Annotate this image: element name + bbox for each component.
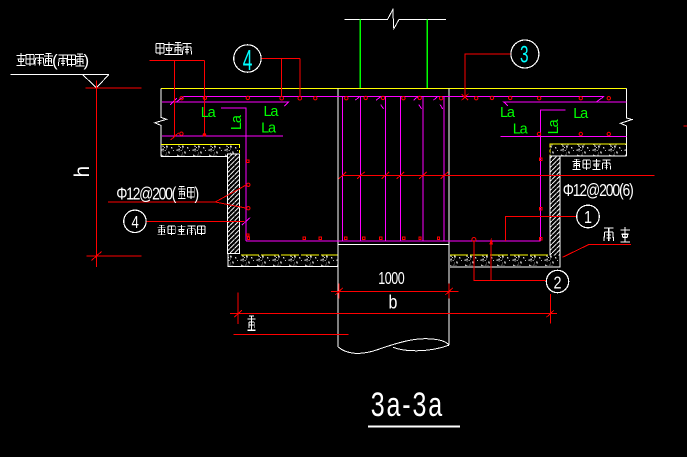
svg-text:(: ( <box>52 51 58 70</box>
right slab cushion left dash (yellow) <box>549 145 551 156</box>
cap stirrup vertical 6 <box>443 96 445 241</box>
callout circle 1 <box>577 205 600 228</box>
callout circle 4 bottom <box>124 210 146 232</box>
circle2 leader top arrow <box>489 238 493 245</box>
left slab edge with break <box>155 88 167 156</box>
dim 1000 line <box>331 290 459 292</box>
callout circle 2 <box>546 270 568 292</box>
cap bottom cushion right speckle <box>450 255 560 266</box>
pile top (white) <box>338 244 449 246</box>
dim b ext lines <box>238 292 550 324</box>
svg-text:La: La <box>264 104 280 120</box>
callout circle 3 <box>511 40 539 68</box>
zhuang label underline <box>233 333 348 335</box>
label phi12@200(6) <box>563 181 634 200</box>
h bottom tick <box>92 252 102 261</box>
dim 1000 ticks <box>335 288 453 295</box>
pile left edge <box>337 245 339 348</box>
dim b ticks <box>234 310 554 317</box>
right slab edge with break <box>621 88 633 156</box>
label dianceng fake glyphs <box>604 227 630 242</box>
label phi12@200(fengbi) <box>116 185 177 204</box>
svg-text:2: 2 <box>553 273 561 293</box>
left slab cushion bottom (white) <box>161 156 240 158</box>
svg-text:La: La <box>229 114 245 130</box>
jog B-A right <box>597 96 605 102</box>
slab bottom rebar right <box>501 135 627 137</box>
phi12 left label underline + fork <box>108 185 246 208</box>
ticks on x=174.6 <box>171 133 179 140</box>
circle1 leader <box>505 217 576 241</box>
dim b line <box>230 313 557 315</box>
circle2 leader <box>474 242 547 280</box>
column rebar left (green) <box>359 20 361 89</box>
cap stirrup vertical 4 <box>400 96 402 241</box>
wall line left of cap (white) <box>337 89 339 245</box>
h bottom red horizontal <box>87 255 142 257</box>
column rebar right (green) <box>426 20 428 89</box>
circle4 leader end rings <box>280 96 302 100</box>
slab top line (yellow) <box>161 87 626 89</box>
left slab cushion speckle <box>162 145 240 155</box>
dianceng leader right <box>563 245 631 258</box>
stirrup right leg with stub <box>541 110 566 241</box>
svg-text:La: La <box>500 105 516 121</box>
level red cross horizontal <box>86 87 142 89</box>
svg-text:La: La <box>201 105 217 121</box>
section rings on bottom slab rebar <box>180 132 611 136</box>
circle2 leader top ring <box>472 238 476 242</box>
svg-text:h: h <box>71 166 94 178</box>
label dibangangjin fake glyphs <box>156 42 192 55</box>
circle4 top leader <box>261 59 300 97</box>
right slab cushion bottom (white) <box>550 155 627 157</box>
cap stirrup vertical 5 <box>422 96 424 241</box>
section squares on stirrup legs <box>247 160 249 162</box>
section rings on top rebar <box>180 96 611 100</box>
svg-text:): ) <box>195 185 200 204</box>
dim text 1000 <box>378 269 405 288</box>
jog A-B left <box>177 96 185 102</box>
cap stirrup vertical 3 <box>384 96 386 241</box>
column break line top <box>344 10 446 29</box>
stray red dash right edge <box>684 125 687 127</box>
arrow dot at x=204.6 <box>203 133 207 137</box>
title 3a-3a <box>371 386 443 424</box>
right slab cushion top (yellow) <box>550 143 627 145</box>
svg-text:4: 4 <box>131 213 139 232</box>
cap bottom cushion left speckle <box>228 255 338 265</box>
top rebar line A full width <box>183 95 604 97</box>
long leader line fengbigujin <box>342 174 655 176</box>
cap stirrup vertical 1 <box>342 96 344 241</box>
slab bottom rebar left <box>162 135 283 137</box>
circle3 leader <box>465 54 511 97</box>
dim text b <box>389 291 398 313</box>
right step hatch band <box>550 156 560 256</box>
svg-text:3: 3 <box>520 42 529 68</box>
svg-text:3a-3a: 3a-3a <box>371 386 443 424</box>
label fengbigujin right fake glyphs <box>572 159 610 170</box>
top rebar line B left <box>162 102 289 106</box>
stirrup top hooks <box>355 97 443 110</box>
tick on leader at line B (magenta) <box>170 98 177 105</box>
svg-text:1000: 1000 <box>378 269 405 288</box>
cap bottom cushion left top (yellow dashed) <box>241 254 338 256</box>
left step hatch band <box>228 154 240 253</box>
svg-text:Φ12@200(: Φ12@200( <box>116 185 177 204</box>
pile bottom wave break <box>338 339 449 354</box>
section squares on cap bottom rebar <box>247 237 439 239</box>
stirrup left leg with stub <box>221 108 246 241</box>
cap bottom cushion left bottom (white) <box>228 254 338 266</box>
svg-text:Φ12@200(6): Φ12@200(6) <box>563 181 634 200</box>
svg-text:La: La <box>573 106 589 122</box>
level red centerline vertical <box>95 80 97 267</box>
circle3 leader tick <box>461 94 468 100</box>
callout circle 4 top <box>234 45 261 72</box>
wall line right of cap (white) <box>448 89 450 245</box>
left slab cushion top (yellow) <box>161 144 240 146</box>
label zhuang fake glyph <box>247 316 255 330</box>
svg-text:La: La <box>546 118 562 134</box>
level symbol underline <box>10 74 108 76</box>
title underline <box>368 425 460 427</box>
svg-text:): ) <box>84 51 90 70</box>
cap bottom cushion right top (yellow) <box>450 254 548 256</box>
svg-text:La: La <box>261 121 277 137</box>
label dibanbiaogao (detail plan) fake glyphs <box>17 51 90 70</box>
leader under dibangangjin label <box>150 61 205 137</box>
cap bottom rebar <box>246 240 541 242</box>
tick on circle4 leader end (magenta) <box>242 218 250 226</box>
svg-text:b: b <box>389 291 398 313</box>
left slab cushion right dash (yellow) <box>239 145 241 156</box>
label fengbiwaigujin fake glyphs <box>157 225 205 235</box>
dim 1000 ext lines <box>339 284 449 299</box>
La labels left <box>201 104 589 137</box>
top rebar line B right <box>504 102 627 106</box>
pile right edge <box>448 245 450 346</box>
right slab cushion speckle <box>550 145 626 156</box>
cap stirrup vertical 2 <box>360 96 362 241</box>
circle4 bottom leader <box>146 220 245 222</box>
level symbol triangle <box>83 75 109 88</box>
svg-text:La: La <box>513 121 529 137</box>
svg-text:4: 4 <box>243 45 253 78</box>
svg-text:1: 1 <box>584 208 592 228</box>
fork end rings <box>247 183 250 210</box>
cap bottom cushion right bottom (white) <box>450 255 560 267</box>
ticks on long leader <box>339 172 448 179</box>
